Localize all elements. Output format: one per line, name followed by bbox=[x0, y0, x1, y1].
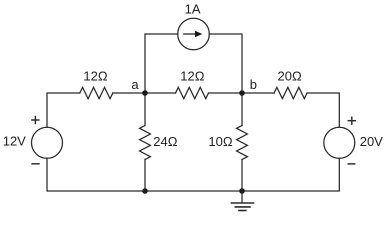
wire 24ohm down to bottom bbox=[144, 160, 146, 192]
resistor R3 20ohm bbox=[274, 87, 307, 98]
plus sign V2 bbox=[348, 117, 356, 125]
svg-text:12Ω: 12Ω bbox=[83, 69, 107, 84]
current source I1 circle bbox=[178, 18, 210, 50]
ground symbol bbox=[231, 191, 255, 211]
wire 10ohm down to bottom bbox=[241, 160, 243, 192]
wire to node a bbox=[113, 92, 145, 94]
current source arrow bbox=[183, 31, 202, 38]
wire top loop right bbox=[209, 34, 242, 93]
minus sign V2 bbox=[348, 163, 356, 165]
wire bottom rail bbox=[47, 158, 339, 191]
svg-text:20V: 20V bbox=[360, 134, 383, 149]
svg-text:12Ω: 12Ω bbox=[180, 69, 204, 84]
minus sign V1 bbox=[31, 163, 39, 165]
svg-text:a: a bbox=[131, 77, 139, 92]
svg-text:1A: 1A bbox=[185, 2, 201, 17]
svg-text:b: b bbox=[250, 77, 257, 92]
voltage source V1 12V circle bbox=[32, 127, 63, 158]
bottom junction dot right (ground node) bbox=[239, 188, 245, 194]
bottom junction dot left bbox=[142, 188, 148, 194]
wire to node b bbox=[209, 92, 243, 94]
svg-text:20Ω: 20Ω bbox=[278, 69, 302, 84]
resistor R2 12ohm middle bbox=[176, 87, 209, 98]
node a junction dot bbox=[142, 90, 148, 96]
wire node b down to 10ohm bbox=[241, 93, 243, 126]
plus sign V1 bbox=[31, 116, 39, 124]
resistor R1 12ohm left bbox=[80, 87, 113, 98]
resistor R5 10ohm vertical bbox=[237, 126, 248, 160]
svg-text:10Ω: 10Ω bbox=[208, 134, 232, 149]
wire node b to 20ohm bbox=[242, 92, 274, 94]
wire top loop left bbox=[145, 34, 178, 93]
svg-text:12V: 12V bbox=[3, 134, 26, 149]
wire 20ohm to right corner and down bbox=[307, 93, 339, 127]
wire node a to middle resistor bbox=[145, 92, 176, 94]
resistor R4 24ohm vertical bbox=[140, 126, 151, 160]
node b junction dot bbox=[239, 90, 245, 96]
svg-text:24Ω: 24Ω bbox=[153, 134, 177, 149]
voltage source V2 20V circle bbox=[324, 127, 355, 158]
wire node a down to 24ohm bbox=[144, 93, 146, 126]
wire left riser and top-left segment bbox=[47, 93, 80, 127]
